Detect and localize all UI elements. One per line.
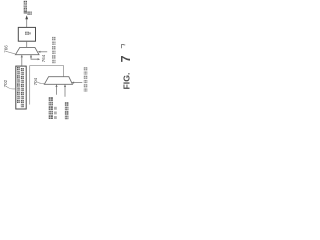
svg-text:702: 702 <box>3 79 8 87</box>
svg-text:FIG.: FIG. <box>121 73 131 90</box>
svg-text:766: 766 <box>3 45 8 53</box>
svg-text:7: 7 <box>119 55 133 62</box>
svg-text:704: 704 <box>33 77 38 85</box>
svg-text:764: 764 <box>41 54 46 62</box>
